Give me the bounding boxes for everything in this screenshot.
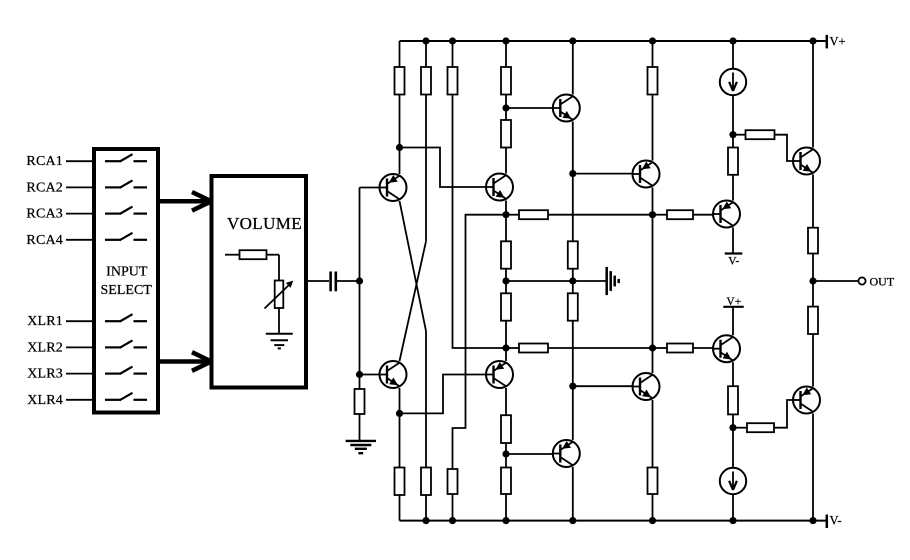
arrow input-select to volume (upper) xyxy=(158,192,211,211)
svg-text:V+: V+ xyxy=(830,35,846,49)
wire bias resistor to ground xyxy=(359,414,361,441)
label XLR1 xyxy=(27,314,63,329)
wire tail node to Q4 xyxy=(505,348,507,361)
junction C9 bottom rail xyxy=(729,517,736,524)
arrow input-select to volume (lower) xyxy=(158,352,211,371)
ground input bias xyxy=(346,441,377,453)
wire input node up to Q1 base row xyxy=(359,188,361,282)
transistor Q6 (lower buffer, PNP) xyxy=(553,440,580,467)
wire R16 to V- rail xyxy=(505,494,507,521)
wire cross-couple diagonal 1 xyxy=(400,201,427,331)
wire mid to ground xyxy=(573,280,607,282)
switch SW5 (XLR1) xyxy=(105,314,147,322)
OUT terminal circle xyxy=(858,277,865,284)
potentiometer VR1 arrow xyxy=(265,281,294,309)
label OUT xyxy=(870,274,895,288)
wire R14 to Q10 base xyxy=(693,347,713,349)
wire RCA3 input lead xyxy=(66,213,94,215)
wire C5 tail current upper xyxy=(453,215,507,469)
junction R18 rail xyxy=(422,517,429,524)
wire CS2 to rail xyxy=(732,495,734,521)
wire R24 to out node xyxy=(812,254,814,282)
junction upper tail node xyxy=(502,211,509,218)
wire to OUT terminal xyxy=(813,280,858,282)
wire Q5 base xyxy=(506,107,553,109)
junction Q12 base takeoff xyxy=(729,424,736,431)
transistor Q10 (lower bias, NPN) xyxy=(713,335,740,362)
resistor volume series xyxy=(240,250,267,259)
wire Q12 collector to rail xyxy=(812,414,814,521)
wire XLR3 input lead xyxy=(66,373,94,375)
wire Q8 base node to Q6 xyxy=(572,386,574,440)
label V+ rail xyxy=(830,35,846,49)
transistor Q7 (upper VAS, PNP) xyxy=(633,161,660,188)
wire C10 rail to Q11 xyxy=(812,41,814,148)
wire RCA4 input lead xyxy=(66,239,94,241)
junction C8 bottom rail xyxy=(649,517,656,524)
svg-text:V-: V- xyxy=(728,256,739,268)
label V+ mid xyxy=(726,296,741,308)
wire input node down to Q2 base row xyxy=(359,281,361,375)
wire R15 to R16 xyxy=(505,443,507,468)
wire C7 rail to Q5 xyxy=(572,41,574,95)
switch SW6 (XLR2) xyxy=(105,340,147,348)
label VOLUME xyxy=(227,214,302,233)
wire XLR2 input lead xyxy=(66,346,94,348)
label XLR2 xyxy=(27,340,63,355)
wire C8 junction to R10 xyxy=(653,214,668,216)
svg-text:XLR1: XLR1 xyxy=(27,314,63,329)
wire Q6 base xyxy=(506,453,553,455)
wire Q12 base route xyxy=(774,400,793,428)
wire volume pot top xyxy=(278,255,280,281)
capacitor C1 (coupling) xyxy=(331,272,336,292)
wire volume output xyxy=(306,280,329,282)
wire Q8 emitter to R20 xyxy=(652,400,654,468)
junction C4 rail xyxy=(449,37,456,44)
resistor R15 xyxy=(501,415,511,443)
switch SW7 (XLR3) xyxy=(105,367,147,375)
wire C8 rail to R6 xyxy=(652,41,654,67)
resistor R6 xyxy=(648,67,658,95)
wire Q8 base xyxy=(573,385,633,387)
wire C9 rail to CS1 xyxy=(732,41,734,69)
V+ mid terminal bar xyxy=(723,306,743,308)
label V- rail xyxy=(830,514,842,528)
resistor R4 xyxy=(501,67,511,95)
label XLR3 xyxy=(27,367,63,382)
wire V- rail xyxy=(400,520,827,522)
potentiometer VR1 body xyxy=(275,281,284,309)
resistor R27 xyxy=(747,423,774,432)
transistor Q12 (output PNP) xyxy=(793,387,820,414)
svg-text:V-: V- xyxy=(830,514,842,528)
switch SW8 (XLR4) xyxy=(105,393,147,401)
label RCA1 xyxy=(26,154,63,169)
resistor R26 xyxy=(728,386,738,414)
wire R22 to Q9 xyxy=(732,175,734,201)
resistor R23 xyxy=(746,130,775,139)
resistor R13 xyxy=(519,344,548,353)
resistor R21 input bias xyxy=(355,389,365,414)
current source CS1 xyxy=(720,69,746,95)
wire V+ rail xyxy=(400,40,827,42)
wire Q10 emitter to R26 xyxy=(732,362,734,386)
junction R19 rail xyxy=(449,517,456,524)
wire Q7 collector down xyxy=(652,188,654,215)
wire XLR4 input lead xyxy=(66,399,94,401)
wire C8 to Q8 xyxy=(652,348,654,373)
wire Q11 base route xyxy=(775,135,794,161)
label INPUT xyxy=(106,265,148,280)
transistor Q2 (lower diff pair left, NPN) xyxy=(380,361,407,388)
transistor Q3 (upper diff pair right, NPN) xyxy=(486,174,513,201)
wire R8 to mid xyxy=(572,269,574,281)
svg-text:RCA3: RCA3 xyxy=(26,207,63,222)
wire Q11 emitter to R24 xyxy=(812,175,814,228)
wire R20 to rail xyxy=(652,494,654,521)
wire Q3 emitter to tail node xyxy=(505,201,507,215)
svg-text:RCA1: RCA1 xyxy=(26,154,63,169)
wire R12 down to Q8 base node xyxy=(572,321,574,387)
transistor Q11 (output NPN) xyxy=(793,148,820,175)
resistor R20 xyxy=(648,468,658,495)
junction Q5 base node xyxy=(502,104,509,111)
junction C8 upper node xyxy=(649,211,656,218)
wire R1 to Q1 emitter xyxy=(399,95,401,175)
wire Q1 base xyxy=(360,187,380,189)
wire lower tail junction to R13 xyxy=(506,347,519,349)
transistor Q5 (upper buffer, NPN) xyxy=(553,95,580,122)
junction C8 lower node xyxy=(649,344,656,351)
junction C10 rail xyxy=(809,37,816,44)
junction Q8 base node xyxy=(569,383,576,390)
wire C3 rail to R2 xyxy=(425,41,427,67)
junction Q7 base node xyxy=(569,170,576,177)
junction Q2 base node xyxy=(356,371,363,378)
wire C3 lower segment xyxy=(425,331,427,468)
wire Q2 base xyxy=(360,374,380,376)
resistor R3 xyxy=(448,67,458,95)
input select box xyxy=(94,149,158,413)
resistor R24 xyxy=(808,228,818,254)
wire volume resistor left lead xyxy=(225,254,240,256)
switch SW1 (RCA1) xyxy=(105,154,147,162)
junction input node xyxy=(356,277,363,284)
wire Q4 base route xyxy=(400,375,487,414)
wire R9 to C8 xyxy=(548,214,653,216)
resistor R7 xyxy=(501,241,511,268)
label RCA2 xyxy=(26,180,63,195)
transistor Q4 (lower diff pair right, PNP) xyxy=(486,361,513,388)
label V- mid xyxy=(728,256,739,268)
wire bias resistor top xyxy=(359,375,361,390)
junction C6 mid node xyxy=(502,277,509,284)
resistor R18 xyxy=(421,468,431,496)
resistor R14 xyxy=(667,344,693,353)
label SELECT xyxy=(101,283,153,298)
label RCA4 xyxy=(26,233,63,248)
wire C4 down and right to C6 xyxy=(453,95,507,349)
junction C8 rail xyxy=(649,37,656,44)
wire CS1 junction to R23 xyxy=(733,134,746,136)
wire cross-couple diagonal 2 xyxy=(400,241,427,361)
junction C6 rail xyxy=(502,37,509,44)
junction R16 rail xyxy=(502,517,509,524)
svg-text:SELECT: SELECT xyxy=(101,283,153,298)
junction Q6 base node xyxy=(502,450,509,457)
resistor R22 xyxy=(728,148,738,175)
label RCA3 xyxy=(26,207,63,222)
wire volume resistor to pot xyxy=(267,254,280,256)
resistor R11 xyxy=(501,293,511,320)
wire tail junction to R9 xyxy=(506,214,519,216)
junction C7 mid node xyxy=(569,277,576,284)
resistor R12 xyxy=(568,293,578,320)
wire R6 to Q7 emitter xyxy=(652,95,654,161)
wire C6 rail to R4 xyxy=(505,41,507,67)
volume box xyxy=(212,176,307,388)
ground volume pot xyxy=(266,334,293,349)
wire C8 middle xyxy=(652,215,654,348)
wire C2 rail to R1 xyxy=(399,41,401,67)
resistor R5 xyxy=(501,120,511,148)
transistor Q8 (lower VAS, NPN) xyxy=(633,373,660,400)
transistor Q9 (upper bias, PNP) xyxy=(713,201,740,228)
junction lower tail node xyxy=(502,344,509,351)
wire CS1 down xyxy=(732,95,734,147)
svg-text:XLR4: XLR4 xyxy=(27,393,63,408)
wire CS2 junction to R27 xyxy=(733,427,747,429)
wire Q6 emitter to rail xyxy=(572,467,574,521)
V- terminal bar xyxy=(826,515,829,529)
svg-text:XLR2: XLR2 xyxy=(27,340,63,355)
wire C7 mid to R12 xyxy=(572,281,574,293)
wire R4 to R5 xyxy=(505,95,507,121)
wire volume pot bottom xyxy=(278,308,280,334)
wire C6 mid to R11 xyxy=(505,281,507,293)
wire Q5 emitter down xyxy=(572,122,574,242)
wire tail node to R7 xyxy=(505,215,507,242)
junction Q11 base takeoff xyxy=(729,131,736,138)
wire C4 rail to R3 xyxy=(452,41,454,67)
wire Q7 base xyxy=(573,173,633,175)
resistor R19 xyxy=(448,469,458,494)
wire V+ to Q10 xyxy=(732,307,734,335)
svg-text:RCA4: RCA4 xyxy=(26,233,63,248)
resistor R8 xyxy=(568,241,578,268)
junction output node xyxy=(809,277,816,284)
resistor R17 xyxy=(395,468,405,496)
wire R10 to Q9 base xyxy=(693,214,713,216)
junction Q4 base takeoff xyxy=(396,410,403,417)
junction C9 rail xyxy=(729,37,736,44)
resistor R25 xyxy=(808,307,818,334)
svg-text:INPUT: INPUT xyxy=(106,265,148,280)
V- mid terminal bar xyxy=(725,252,743,254)
switch SW4 (RCA4) xyxy=(105,233,147,241)
wire R5 to Q3 xyxy=(505,148,507,174)
wire out node to R25 xyxy=(812,281,814,307)
wire Q2 collector down xyxy=(399,388,401,468)
junction C7 rail xyxy=(569,37,576,44)
V+ terminal bar xyxy=(826,35,829,49)
wire R26 to CS2 xyxy=(732,414,734,467)
junction C10 bottom rail xyxy=(809,517,816,524)
resistor R2 xyxy=(421,67,431,95)
resistor R16 xyxy=(501,468,511,495)
wire C6 mid to C7 mid xyxy=(506,280,573,282)
svg-text:OUT: OUT xyxy=(870,274,895,288)
wire R11 to lower tail node xyxy=(505,321,507,348)
wire RCA1 input lead xyxy=(66,160,94,162)
wire capacitor to input node xyxy=(337,280,360,282)
wire R2 down xyxy=(425,95,427,242)
switch SW3 (RCA3) xyxy=(105,207,147,215)
wire C8 lower junction to R14 xyxy=(653,347,668,349)
wire Q4 emitter to R15 xyxy=(505,388,507,415)
wire R18 to V- rail xyxy=(425,495,427,521)
current source CS2 xyxy=(720,468,746,494)
svg-text:XLR3: XLR3 xyxy=(27,367,63,382)
wire Q3 base route xyxy=(400,148,487,188)
ground signal reference xyxy=(607,267,619,295)
wire R13 to C8 xyxy=(548,347,653,349)
wire R17 to V- rail xyxy=(399,495,401,521)
wire Q9 collector to V- xyxy=(732,228,734,254)
switch SW2 (RCA2) xyxy=(105,180,147,188)
resistor R10 xyxy=(667,210,693,219)
transistor Q1 (upper diff pair left, PNP) xyxy=(380,174,407,201)
wire RCA2 input lead xyxy=(66,186,94,188)
label XLR4 xyxy=(27,393,63,408)
wire R25 to Q12 xyxy=(812,334,814,387)
junction C3 rail xyxy=(422,37,429,44)
resistor R9 xyxy=(519,210,548,219)
wire R19 to V- rail xyxy=(452,494,454,521)
junction Q1 emitter node xyxy=(396,144,403,151)
svg-text:VOLUME: VOLUME xyxy=(227,214,302,233)
svg-text:RCA2: RCA2 xyxy=(26,180,63,195)
resistor R1 xyxy=(395,67,405,95)
wire XLR1 input lead xyxy=(66,320,94,322)
wire R7 to mid node xyxy=(505,269,507,281)
junction C7 bottom rail xyxy=(569,517,576,524)
